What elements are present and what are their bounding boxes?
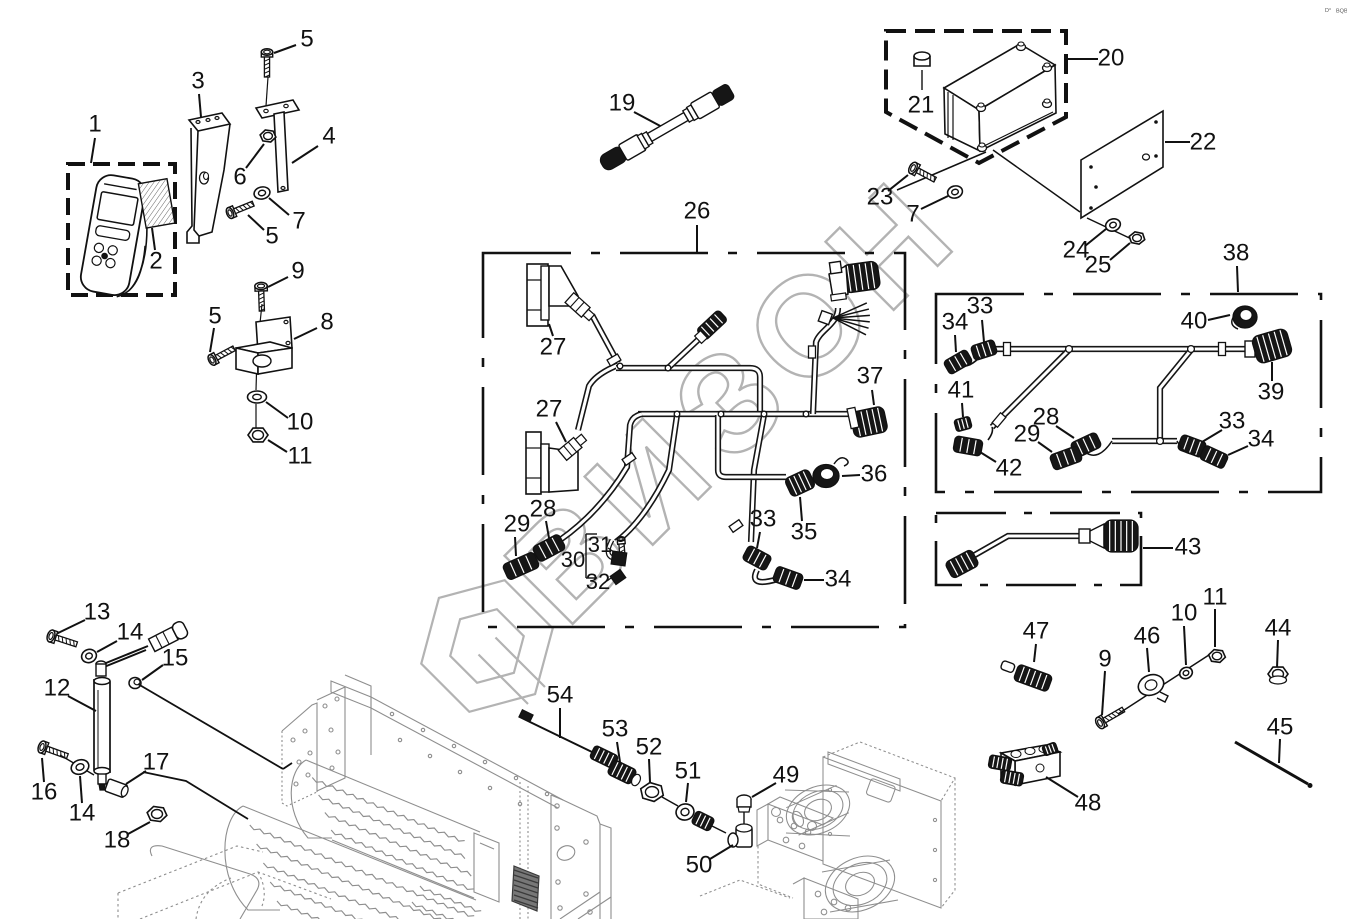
svg-text:25: 25 bbox=[1085, 251, 1112, 278]
svg-text:37: 37 bbox=[857, 362, 884, 389]
svg-text:10: 10 bbox=[1171, 599, 1198, 626]
svg-text:19: 19 bbox=[609, 89, 636, 116]
svg-text:9: 9 bbox=[1098, 645, 1111, 672]
svg-text:BQB: BQB bbox=[1336, 9, 1347, 15]
svg-text:34: 34 bbox=[825, 565, 852, 592]
svg-text:12: 12 bbox=[44, 674, 71, 701]
svg-text:36: 36 bbox=[861, 460, 888, 487]
svg-text:52: 52 bbox=[636, 733, 663, 760]
svg-text:54: 54 bbox=[547, 681, 574, 708]
svg-text:5: 5 bbox=[300, 25, 313, 52]
svg-text:34: 34 bbox=[1248, 425, 1275, 452]
svg-text:35: 35 bbox=[791, 518, 818, 545]
svg-text:41: 41 bbox=[948, 376, 975, 403]
svg-text:48: 48 bbox=[1075, 789, 1102, 816]
svg-text:44: 44 bbox=[1265, 614, 1292, 641]
svg-text:3: 3 bbox=[191, 67, 204, 94]
svg-text:34: 34 bbox=[942, 308, 969, 335]
svg-text:47: 47 bbox=[1023, 617, 1050, 644]
svg-text:42: 42 bbox=[996, 454, 1023, 481]
svg-text:38: 38 bbox=[1223, 239, 1250, 266]
svg-text:23: 23 bbox=[867, 183, 894, 210]
svg-text:11: 11 bbox=[288, 442, 313, 469]
svg-text:40: 40 bbox=[1181, 307, 1208, 334]
svg-text:27: 27 bbox=[540, 333, 567, 360]
svg-text:8: 8 bbox=[320, 308, 333, 335]
svg-text:15: 15 bbox=[162, 644, 189, 671]
svg-text:27: 27 bbox=[536, 395, 563, 422]
svg-text:9: 9 bbox=[291, 257, 304, 284]
svg-text:30: 30 bbox=[561, 547, 585, 572]
svg-text:14: 14 bbox=[117, 618, 144, 645]
svg-text:33: 33 bbox=[967, 292, 994, 319]
svg-text:39: 39 bbox=[1258, 378, 1285, 405]
svg-text:5: 5 bbox=[265, 222, 278, 249]
svg-text:14: 14 bbox=[69, 799, 96, 826]
svg-text:22: 22 bbox=[1190, 128, 1217, 155]
svg-text:11: 11 bbox=[1203, 583, 1228, 610]
svg-text:50: 50 bbox=[686, 851, 713, 878]
svg-text:49: 49 bbox=[773, 761, 800, 788]
svg-text:29: 29 bbox=[1014, 420, 1041, 447]
svg-text:45: 45 bbox=[1267, 713, 1294, 740]
svg-text:51: 51 bbox=[675, 757, 702, 784]
svg-text:6: 6 bbox=[233, 163, 246, 190]
svg-text:1: 1 bbox=[88, 110, 101, 137]
svg-text:53: 53 bbox=[602, 715, 629, 742]
svg-text:31: 31 bbox=[588, 532, 612, 557]
svg-text:17: 17 bbox=[143, 748, 170, 775]
svg-text:16: 16 bbox=[31, 778, 58, 805]
svg-text:13: 13 bbox=[84, 598, 111, 625]
svg-text:4: 4 bbox=[322, 122, 335, 149]
svg-text:26: 26 bbox=[684, 197, 711, 224]
svg-text:D°: D° bbox=[1325, 8, 1331, 14]
svg-text:20: 20 bbox=[1098, 44, 1125, 71]
svg-text:29: 29 bbox=[504, 510, 531, 537]
svg-text:43: 43 bbox=[1175, 533, 1202, 560]
svg-text:10: 10 bbox=[287, 408, 314, 435]
svg-text:46: 46 bbox=[1134, 622, 1161, 649]
svg-text:28: 28 bbox=[530, 495, 557, 522]
svg-text:33: 33 bbox=[750, 505, 777, 532]
svg-text:7: 7 bbox=[906, 200, 919, 227]
svg-text:7: 7 bbox=[292, 207, 305, 234]
svg-text:33: 33 bbox=[1219, 407, 1246, 434]
svg-text:5: 5 bbox=[208, 302, 221, 329]
svg-text:21: 21 bbox=[908, 91, 935, 118]
svg-text:18: 18 bbox=[104, 826, 131, 853]
svg-text:2: 2 bbox=[149, 247, 162, 274]
svg-text:32: 32 bbox=[586, 569, 610, 594]
